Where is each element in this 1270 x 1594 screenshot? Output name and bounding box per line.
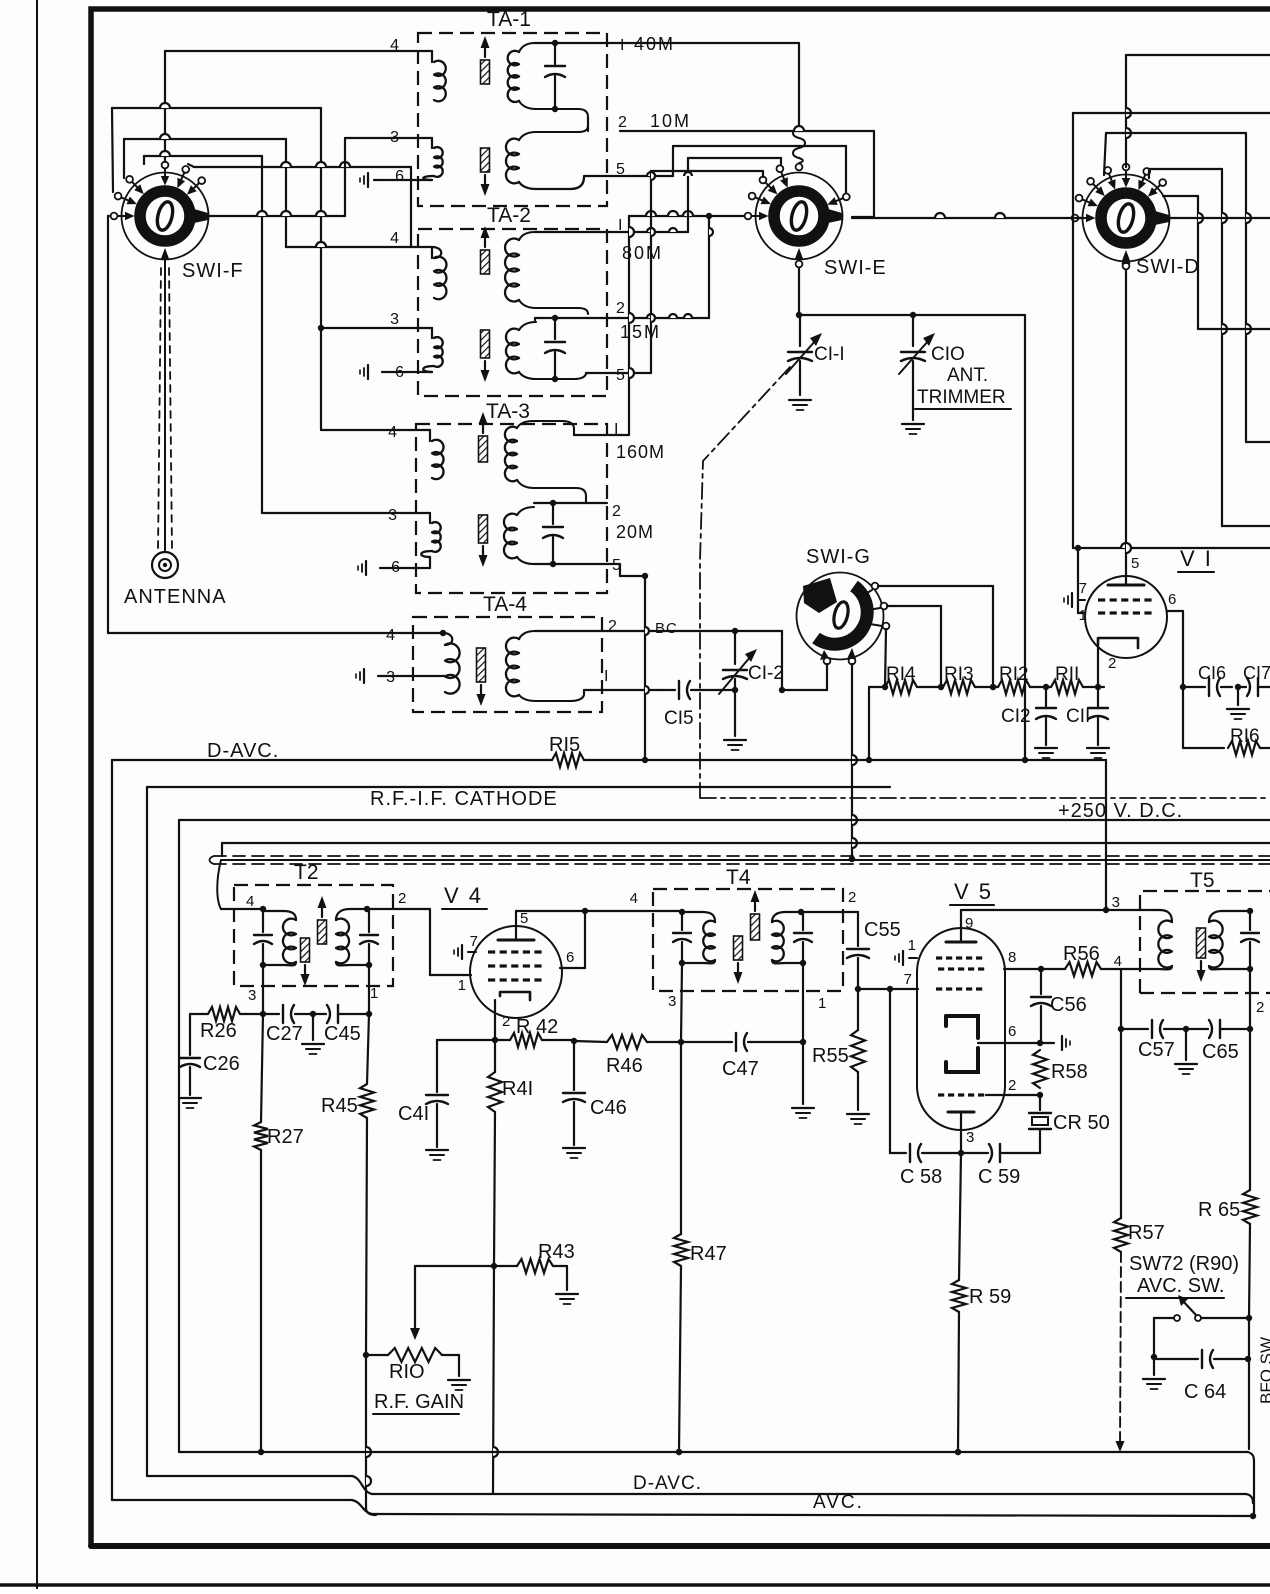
TA-2 internal capacitor — [554, 318, 556, 339]
svg-text:C47: C47 — [722, 1058, 759, 1080]
T4 primary coil — [682, 912, 715, 922]
svg-text:ANTENNA: ANTENNA — [124, 586, 227, 608]
svg-text:R 65: R 65 — [1198, 1199, 1240, 1221]
C26 ground — [179, 1097, 201, 1099]
SW1-E 9oclock wire — [629, 215, 749, 217]
bus AVC bottom — [112, 1499, 352, 1501]
wire down to C58 — [889, 989, 891, 1153]
C11 ground — [1087, 747, 1109, 749]
svg-text:7: 7 — [904, 971, 912, 988]
variable capacitor C1-2 — [734, 631, 736, 664]
capacitor C65 — [1186, 1028, 1208, 1030]
transformer T2 box — [234, 885, 393, 986]
SW1-G terminal right 3 — [883, 623, 890, 630]
V5 inner plate brackets — [946, 1016, 978, 1038]
SW1-E bottom terminal — [795, 248, 804, 260]
T2 slug down — [301, 938, 310, 962]
svg-text:RI5: RI5 — [549, 734, 580, 756]
transformer T5 box — [1140, 891, 1270, 993]
svg-text:9: 9 — [965, 915, 973, 932]
resistor R12 — [998, 680, 1030, 694]
TA-2 primary upper coil — [431, 247, 433, 258]
svg-text:I: I — [620, 37, 624, 54]
svg-text:D-AVC.: D-AVC. — [633, 1473, 702, 1494]
capacitor C56 — [1040, 969, 1042, 994]
TA-3 lower slug — [479, 515, 488, 543]
IF enclosure line 1 — [179, 819, 1270, 821]
svg-text:ANT.: ANT. — [947, 365, 988, 386]
svg-text:SWI-D: SWI-D — [1136, 256, 1200, 278]
C12 ground — [1035, 747, 1057, 749]
svg-text:1: 1 — [908, 937, 916, 954]
wire R65 down to bus — [1248, 1318, 1250, 1449]
svg-text:RI6: RI6 — [1230, 726, 1260, 747]
TA-3 secondary upper coil — [505, 427, 517, 482]
SW1-D 9oclock wire — [1075, 217, 1082, 219]
TA-2 lower slug — [481, 330, 490, 358]
svg-text:1: 1 — [458, 977, 466, 994]
svg-text:RI3: RI3 — [944, 664, 974, 685]
wire vertical bracket D — [410, 167, 412, 247]
svg-text:3: 3 — [390, 311, 399, 328]
TA-3 internal capacitor — [552, 503, 554, 524]
tube V4 — [470, 926, 562, 1018]
TA-2 secondary upper coil — [505, 239, 519, 302]
bus bottom 1 — [179, 1451, 1248, 1453]
wire vertical to TA-3 pin 3 — [261, 156, 263, 513]
SW72 right wire — [1201, 1317, 1249, 1319]
TA-1 secondary lower coil — [506, 139, 519, 184]
transformer T4 box — [653, 889, 843, 991]
C1-2 junction to BC wire — [732, 628, 738, 634]
T4 secondary coil — [772, 921, 784, 962]
T2 primary coil — [263, 911, 296, 920]
T4 pin 2 wire — [801, 911, 858, 913]
TA-1 pin1 wire 40M — [535, 42, 620, 44]
svg-text:3: 3 — [248, 987, 256, 1004]
TA-2 secondary lower coil — [506, 329, 519, 374]
svg-text:V 4: V 4 — [444, 883, 483, 908]
TA-4 slug — [477, 648, 486, 682]
potentiometer R10 — [364, 1354, 388, 1356]
T4 pin 1 wire — [802, 963, 804, 1042]
T4 secondary capacitor — [798, 909, 804, 915]
wire SW1-E bottom to trimmers — [799, 314, 1025, 316]
SW72 left wire — [1154, 1317, 1174, 1319]
svg-text:C65: C65 — [1202, 1041, 1239, 1063]
wire R15 D-AVC bus — [112, 759, 552, 761]
V5 pin 9 plate — [946, 941, 976, 944]
svg-text:R55: R55 — [812, 1045, 849, 1067]
T2 pin 2 wire — [367, 908, 430, 910]
svg-text:1: 1 — [1079, 607, 1087, 624]
wire right nest 2 — [1221, 169, 1223, 526]
TA-1 pin6 ground — [382, 179, 432, 181]
svg-text:4: 4 — [390, 230, 399, 247]
capacitor C16 — [1180, 684, 1186, 690]
capacitor C45 — [313, 1013, 326, 1015]
svg-text:R58: R58 — [1051, 1061, 1088, 1083]
capacitor C59 — [961, 1152, 988, 1154]
SW1-E 15M vertical — [708, 216, 710, 318]
svg-text:3: 3 — [966, 1129, 974, 1146]
svg-text:15M: 15M — [620, 322, 661, 342]
V4 pin 6 wire — [560, 967, 585, 969]
TA-1 pin5 wire — [584, 175, 673, 177]
TA-1 internal capacitor C — [554, 43, 556, 64]
svg-text:BC: BC — [655, 620, 678, 637]
T5 secondary coil — [1209, 921, 1223, 968]
junction T4 pin3 — [678, 1039, 684, 1045]
svg-text:C 58: C 58 — [900, 1166, 942, 1188]
svg-text:CR 50: CR 50 — [1053, 1112, 1110, 1134]
svg-text:2: 2 — [608, 618, 617, 635]
TA-4 pin4 wire — [108, 632, 443, 634]
wire TA-2 pin4 horizontal — [286, 246, 432, 248]
transformer TA-2 box — [418, 229, 607, 396]
grid resistor chain wire — [869, 686, 885, 688]
capacitor C27 — [263, 1013, 279, 1015]
rotary switch SW1-F — [111, 162, 209, 260]
V4 plate — [498, 939, 534, 942]
svg-text:TRIMMER: TRIMMER — [917, 387, 1006, 408]
svg-text:2: 2 — [1008, 1077, 1016, 1094]
resistor R65 — [1249, 1029, 1251, 1190]
resistor R47 — [680, 1042, 682, 1234]
shield dashed bus — [214, 855, 1270, 857]
SW1-F left terminal wire to TA-4 — [108, 215, 109, 217]
C1-2 ground — [734, 690, 736, 736]
SW1-E bracket 171 — [650, 171, 652, 373]
TA-3 pin4 wire — [321, 429, 430, 431]
svg-text:R46: R46 — [606, 1055, 643, 1077]
SW1-D pointer wire — [1170, 217, 1270, 219]
SW1-E pointer wire to SW1-D — [852, 217, 1082, 219]
svg-text:R56: R56 — [1063, 943, 1100, 965]
R57 dash wire to bus — [1120, 1252, 1121, 1446]
wire R14 to D-AVC bus — [868, 687, 870, 760]
svg-text:CI7: CI7 — [1243, 663, 1270, 683]
TA-1 primary lower coil — [431, 138, 433, 148]
svg-text:TA-1: TA-1 — [487, 8, 531, 31]
SW1-D 1oclock wire — [1148, 169, 1150, 178]
SW1-G terminal right 1 — [872, 583, 879, 590]
svg-text:R 59: R 59 — [969, 1286, 1011, 1308]
SW1-F wire top terminal to TA-1 pin 4 — [164, 51, 166, 162]
resistor R14 — [885, 680, 917, 694]
svg-text:7: 7 — [470, 933, 478, 950]
TA-3 pin5 wire — [534, 563, 620, 565]
SW1-F bottom terminal arrow — [161, 248, 170, 260]
svg-text:C45: C45 — [324, 1023, 361, 1045]
svg-text:C4I: C4I — [398, 1103, 429, 1125]
svg-text:5: 5 — [1131, 555, 1139, 572]
svg-text:2: 2 — [848, 889, 856, 906]
T2 secondary coil — [336, 919, 349, 964]
svg-text:C56: C56 — [1050, 994, 1087, 1016]
TA-1 slug upper — [481, 148, 490, 172]
SW1-D top left wire — [1073, 112, 1270, 114]
svg-text:V 5: V 5 — [954, 879, 993, 904]
svg-text:RII: RII — [1055, 664, 1079, 685]
svg-text:R26: R26 — [200, 1020, 237, 1042]
capacitor C57 — [1121, 1028, 1148, 1030]
V5 pin 6 shield ground — [1040, 1042, 1054, 1044]
wire bracket B horizontal — [112, 107, 321, 109]
R10 wiper wire — [415, 1265, 494, 1267]
svg-text:C46: C46 — [590, 1097, 627, 1119]
wire C55 to V5 pin 7 — [858, 988, 918, 990]
T4 slug up — [751, 914, 760, 940]
svg-text:RI4: RI4 — [886, 664, 916, 685]
svg-text:C57: C57 — [1138, 1039, 1175, 1061]
T2 secondary capacitor — [364, 906, 370, 912]
capacitor C55 — [857, 912, 859, 946]
svg-text:R47: R47 — [690, 1243, 727, 1265]
R55 ground — [847, 1113, 869, 1115]
TA-3 primary lower coil — [429, 513, 431, 523]
svg-text:4: 4 — [1114, 953, 1122, 970]
resistor R41 — [488, 1072, 502, 1112]
R10 ground — [448, 1379, 470, 1381]
capacitor C11 — [1095, 684, 1101, 690]
TA-1 secondary upper coil — [508, 51, 519, 102]
D-AVC bus wire right — [584, 759, 1106, 761]
junction R42 C46 — [571, 1038, 577, 1044]
V5 grid row 1 — [936, 956, 942, 959]
svg-text:4: 4 — [630, 890, 638, 907]
SW1-G bottom terminal left — [824, 658, 831, 665]
V5 cathode — [948, 1111, 974, 1114]
V1 grid rows — [1098, 598, 1105, 601]
SW1-D top terminal wire — [1125, 55, 1127, 167]
svg-text:R57: R57 — [1128, 1222, 1165, 1244]
svg-text:3: 3 — [1112, 894, 1120, 911]
svg-text:C27: C27 — [266, 1023, 303, 1045]
svg-text:T4: T4 — [726, 866, 751, 889]
svg-text:C55: C55 — [864, 919, 901, 941]
TA-1 pin4 wire — [165, 50, 432, 52]
tube V1 — [1085, 576, 1167, 658]
svg-text:1: 1 — [370, 985, 378, 1002]
svg-text:160M: 160M — [616, 442, 665, 462]
shield center conductor — [221, 859, 1270, 861]
svg-text:6: 6 — [1008, 1023, 1016, 1040]
SW1-F terminal 134 wire — [123, 139, 125, 178]
wire bracket D horizontal — [194, 166, 411, 168]
T4 pin1 ground — [802, 1042, 804, 1104]
TA-3 pin3 wire — [262, 512, 430, 514]
T4 pin 3 wire — [681, 963, 682, 1042]
TA-3 pin6 ground — [380, 567, 430, 569]
C46 ground — [563, 1147, 585, 1149]
V5 grid row 2 pin 8 — [938, 967, 944, 970]
TA-2 pin3 wire — [321, 327, 432, 329]
C41 ground — [426, 1149, 448, 1151]
SW1-F terminal 112 wire — [143, 156, 145, 164]
svg-text:2: 2 — [1108, 655, 1116, 672]
wire TA column to D-AVC — [644, 576, 646, 760]
svg-text:C26: C26 — [203, 1053, 240, 1075]
svg-text:CI5: CI5 — [664, 708, 694, 729]
svg-text:D-AVC.: D-AVC. — [207, 740, 279, 762]
svg-text:3: 3 — [386, 669, 395, 686]
svg-text:7: 7 — [1079, 580, 1087, 597]
svg-text:SW72 (R90): SW72 (R90) — [1129, 1253, 1239, 1275]
wire vertical to TA-2 pin 4 — [285, 139, 287, 247]
svg-text:R.F. GAIN: R.F. GAIN — [374, 1391, 464, 1413]
svg-text:RI2: RI2 — [999, 664, 1029, 685]
V4 grid rows — [488, 950, 495, 953]
resistor R55 — [857, 989, 859, 1030]
transformer TA-4 box — [413, 617, 602, 712]
TA-4 secondary coil — [506, 638, 519, 697]
wire bracket C horizontal — [124, 138, 286, 140]
SW1-D 2oclock wire — [1163, 195, 1198, 197]
svg-text:10M: 10M — [650, 111, 691, 131]
page edge line left — [36, 0, 38, 1589]
svg-text:SWI-G: SWI-G — [806, 546, 871, 568]
T2 pin 3 wire — [262, 965, 264, 1014]
V5 plate wire to T5 — [961, 909, 1153, 911]
SW1-D 11oclock wire — [1104, 133, 1106, 175]
svg-text:8: 8 — [1008, 949, 1016, 966]
TA-2 pin2 wire 15M — [534, 318, 536, 322]
svg-text:I: I — [604, 668, 608, 685]
T5 primary coil — [1153, 910, 1172, 922]
SW1-D bottom terminal — [1122, 250, 1131, 262]
SW1-G right wires to grid resistors — [878, 585, 993, 587]
wire R57 branch — [1120, 969, 1122, 1029]
T4 primary capacitor — [681, 912, 683, 930]
R45 wire down to bus — [366, 1118, 367, 1355]
junction ground C57 C65 — [1183, 1026, 1189, 1032]
TA-1 upper slug arrow — [481, 60, 490, 84]
resistor R27 — [262, 1014, 264, 1122]
wire right nest lower — [1221, 169, 1223, 526]
left bus vertical 4 — [221, 843, 223, 856]
capacitor C58 — [890, 1152, 906, 1154]
svg-text:1: 1 — [818, 995, 826, 1012]
TA-3 secondary lower coil — [504, 514, 517, 559]
svg-text:R43: R43 — [538, 1241, 575, 1263]
mechanical gang dash-dot line — [700, 367, 790, 798]
svg-text:AVC.: AVC. — [813, 1492, 864, 1513]
wire vertical to TA-2 pin 3 — [320, 108, 322, 430]
capacitor C15 — [661, 689, 675, 691]
left bus vertical D-AVC — [111, 760, 113, 1500]
left bus vertical 3 — [178, 820, 180, 1452]
T2 pin 4 wire — [221, 908, 263, 910]
svg-text:4: 4 — [246, 893, 254, 910]
svg-text:4: 4 — [386, 627, 395, 644]
capacitor C47 — [681, 1041, 732, 1043]
resistor R56 — [1041, 968, 1065, 970]
svg-text:BFO SW: BFO SW — [1257, 1337, 1270, 1404]
variable capacitor C10 antenna trimmer — [912, 315, 914, 346]
svg-text:+250 V. D.C.: +250 V. D.C. — [1058, 800, 1183, 822]
SW72 ground — [1153, 1357, 1155, 1375]
TA-2 pin4 feed wire — [286, 246, 411, 248]
bus D-AVC bottom — [147, 1475, 352, 1477]
transformer TA-1 box — [418, 33, 607, 206]
TA-2 pin6 ground — [382, 371, 432, 373]
SW1-G bottom right wire — [851, 664, 853, 859]
svg-text:6: 6 — [1168, 591, 1176, 608]
SW1-F terminal 157 wire — [112, 108, 113, 192]
V4 cathode junction — [492, 1037, 498, 1043]
SW1-F terminal 66 wire — [188, 164, 194, 167]
svg-text:R 42: R 42 — [516, 1016, 558, 1038]
svg-text:6: 6 — [566, 949, 574, 966]
resistor R43 — [517, 1259, 553, 1273]
svg-text:20M: 20M — [616, 522, 654, 542]
RF-IF cathode bus — [147, 786, 890, 788]
SW1-F pointer wire — [209, 215, 345, 217]
svg-text:SWI-E: SWI-E — [824, 257, 887, 279]
TA-2 primary lower coil — [431, 328, 433, 338]
T2 pin 1 wire — [368, 965, 370, 1014]
V5 pin 6 wire — [978, 1042, 1040, 1044]
TA-1 pin2 wire 10M — [587, 117, 589, 131]
TA-4 pin3 ground — [378, 675, 445, 677]
resistor R11 — [1051, 680, 1083, 694]
R41 wire down — [494, 1112, 495, 1266]
capacitor C12 — [1043, 684, 1049, 690]
svg-text:CI6: CI6 — [1198, 663, 1226, 683]
resistor R58 — [1033, 1050, 1047, 1088]
rotary switch SW1-G — [797, 573, 884, 660]
R43 ground — [556, 1293, 578, 1295]
wire trimmer bus down — [1024, 315, 1026, 760]
SW1-E bracket 146 — [672, 146, 674, 176]
svg-text:T5: T5 — [1190, 869, 1215, 892]
svg-text:CI-I: CI-I — [814, 344, 845, 365]
svg-text:TA-4: TA-4 — [483, 593, 527, 616]
capacitor C41 — [437, 1039, 495, 1041]
svg-text:CI2: CI2 — [1001, 706, 1031, 727]
C10 ground — [902, 423, 924, 425]
TA-2 pin1 wire 80M — [535, 231, 688, 233]
svg-text:2: 2 — [398, 890, 406, 907]
SW1-G terminal right 2 — [881, 603, 888, 610]
switch SW72 blade — [1182, 1300, 1196, 1315]
resistor R16 — [1183, 747, 1224, 749]
resistor R57 — [1120, 1029, 1122, 1218]
svg-text:6: 6 — [395, 168, 404, 185]
svg-text:2: 2 — [612, 503, 621, 520]
wire TA-1 pin3 vertical — [344, 138, 346, 216]
transformer TA-3 box — [416, 424, 607, 593]
TA-4 primary coil — [443, 633, 452, 645]
svg-text:4: 4 — [388, 424, 397, 441]
SW1-D bottom wire to V1 plate — [1125, 270, 1127, 576]
T2 slug up — [318, 920, 327, 944]
resistor R42 — [495, 1039, 510, 1041]
crystal CR50 — [1039, 1095, 1041, 1110]
V1 pin 6 wire — [1167, 610, 1183, 612]
C1-1 ground — [789, 399, 811, 401]
svg-text:2: 2 — [616, 300, 625, 317]
wire 10M to SW1-E pointer — [620, 130, 874, 132]
svg-text:CIO: CIO — [931, 344, 965, 365]
variable capacitor C1-1 — [799, 315, 801, 346]
svg-text:R45: R45 — [321, 1095, 358, 1117]
TA-3 pin1 wire 160M — [573, 429, 575, 435]
SW1-D left vertical — [1072, 113, 1074, 548]
C16 C17 ground — [1237, 687, 1239, 705]
wire SW1-G to R13 R12 junction — [990, 684, 996, 690]
